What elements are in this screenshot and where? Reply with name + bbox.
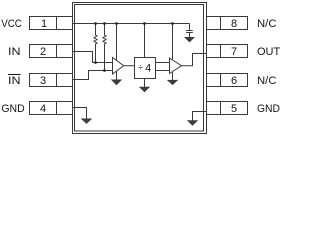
IC functional inner outline (75, 5, 204, 132)
wire comparator VCC drop (116, 24, 118, 61)
wire IN input from pin 2 (73, 52, 113, 63)
svg-text:6: 6 (231, 75, 237, 87)
overline for IN-bar (8, 74, 21, 76)
junction node rail-divider (143, 22, 146, 25)
wire GND from pin 5 (193, 112, 207, 121)
junction node rail-R2 (103, 22, 106, 25)
pin 1 box (30, 17, 73, 30)
junction node rail-R1 (94, 22, 97, 25)
capacitor C1 lead (189, 24, 191, 31)
wire buffer output to OUT pin 7 (182, 54, 207, 66)
svg-text:GND: GND (1, 103, 24, 115)
junction node rail-comparator (115, 22, 118, 25)
ground arrow for buffer (168, 80, 177, 84)
wire comparator ground lead (116, 71, 118, 80)
ground arrow for pin 4 (82, 119, 91, 123)
svg-text:2: 2 (40, 46, 46, 58)
wire buffer VCC drop (172, 24, 174, 60)
wire divider to buffer upper (156, 62, 170, 64)
svg-text:8: 8 (231, 18, 237, 30)
junction node R1-input (94, 61, 97, 64)
svg-text:VCC: VCC (1, 18, 22, 30)
pin 2 box (30, 45, 73, 58)
svg-text:5: 5 (231, 103, 237, 115)
svg-text:4: 4 (40, 103, 46, 115)
svg-text:OUT: OUT (257, 46, 280, 58)
wire IN-bar input from pin 3 (73, 71, 113, 80)
resistor R1 (94, 24, 97, 63)
wire buffer ground lead (172, 72, 174, 81)
ground arrow for pin 5 (188, 121, 197, 125)
wire GND from pin 4 (73, 108, 87, 120)
pin 3 box (30, 74, 73, 87)
wire divider ground lead (144, 79, 146, 88)
pin 4 box (30, 102, 73, 115)
resistor R2 (103, 24, 106, 71)
svg-text:4: 4 (145, 62, 151, 74)
ground arrow for comparator (112, 80, 121, 85)
svg-text:÷: ÷ (138, 63, 143, 73)
svg-text:IN: IN (8, 46, 21, 58)
divider block U2 (135, 58, 156, 79)
junction node R2-input (103, 69, 106, 72)
ground arrow for C1 (185, 38, 194, 42)
ground arrow for divider (140, 87, 149, 91)
junction node rail-buffer (171, 22, 174, 25)
comparator U1 (113, 58, 124, 75)
wire VCC rail from pin 1 (73, 23, 190, 25)
pin 7 box (207, 45, 248, 58)
wire divider to buffer lower (156, 70, 170, 72)
wire divider VCC drop (144, 24, 146, 58)
svg-text:GND: GND (257, 103, 280, 115)
IC package outer outline (73, 3, 207, 134)
svg-text:N/C: N/C (257, 18, 277, 30)
pin 5 box (207, 102, 248, 115)
pin 6 box (207, 74, 248, 87)
wire comparator output (124, 65, 135, 67)
svg-text:N/C: N/C (257, 75, 277, 87)
buffer U3 (170, 58, 182, 74)
svg-text:1: 1 (41, 18, 47, 30)
svg-text:IN: IN (8, 75, 21, 87)
capacitor C1 (186, 31, 193, 38)
pin 8 box (207, 17, 248, 30)
svg-text:7: 7 (231, 46, 237, 58)
svg-text:3: 3 (40, 75, 46, 87)
